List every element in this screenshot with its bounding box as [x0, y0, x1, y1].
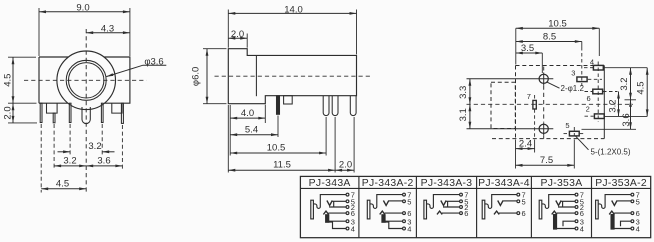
label 5-(1.2X0.5) leader: [576, 136, 589, 150]
reference line 3.6 bottom: [582, 128, 637, 130]
bottom dim extensions pcb: [515, 140, 517, 169]
PJ-343A-3 wire to pin 5: [446, 200, 459, 202]
pcb horizontal centerline dashed: [467, 103, 634, 105]
PJ-353A-2 wire to pin 4: [614, 228, 631, 230]
dimension 3.2 right upper: [630, 68, 632, 100]
table column divider 1: [358, 176, 360, 237]
PJ-343A tip contact (V): [327, 201, 332, 206]
svg-text:4: 4: [636, 225, 640, 234]
svg-text:3.6: 3.6: [621, 113, 632, 126]
table column divider 5: [591, 176, 593, 237]
front pin 6: [121, 103, 123, 123]
dimension 2.0 top: [228, 37, 247, 39]
mounting hole H2 (dia 1.2): [539, 124, 548, 133]
dimension 3.6 lower: [86, 165, 122, 167]
dimension 7.5: [516, 164, 575, 166]
dimension 8.5: [516, 41, 582, 43]
dimension dia 6.0: [206, 49, 208, 104]
dimension 9.0 extension lines: [38, 8, 40, 56]
pad 2 dashes: [585, 115, 594, 117]
side view flat pin (5.4 position): [277, 96, 280, 115]
svg-text:4.0: 4.0: [241, 108, 254, 119]
PJ-353A pin 6 terminal: [575, 212, 578, 215]
PJ-343A-3 pin 7 terminal: [460, 193, 463, 196]
svg-text:2-φ1.2: 2-φ1.2: [561, 84, 585, 93]
label 2-dia1.2 leader: [547, 82, 559, 88]
PJ-343A-4 sleeve contact bar: [482, 200, 485, 219]
pad 4 dashes: [584, 67, 593, 69]
PJ-343A-2 pin 6 terminal: [403, 212, 406, 215]
svg-text:φ3.6: φ3.6: [144, 56, 163, 67]
dimension 2.0 left: [12, 103, 14, 123]
PJ-343A-3 drop wire to pin 2: [443, 201, 460, 207]
svg-text:5.4: 5.4: [245, 125, 258, 136]
svg-text:10.5: 10.5: [267, 143, 286, 154]
svg-text:3.2: 3.2: [63, 155, 76, 166]
svg-text:4.5: 4.5: [3, 74, 14, 87]
dimension 10.5 pcb extensions: [515, 28, 517, 64]
dimension 9.0: [39, 11, 130, 13]
PJ-343A-3 sleeve wire to pin 7: [427, 195, 460, 209]
svg-text:3.5: 3.5: [521, 43, 534, 54]
dimension 10.5 pcb: [516, 27, 600, 29]
PJ-343A-4 pin 6 terminal: [517, 212, 520, 215]
front left mounting notch: [47, 103, 58, 113]
svg-text:2.0: 2.0: [3, 106, 14, 119]
PJ-353A pin 2 terminal: [575, 206, 578, 209]
svg-text:PJ-343A: PJ-343A: [309, 178, 351, 189]
svg-text:3.6: 3.6: [97, 155, 110, 166]
front view horizontal centerline: [24, 79, 147, 81]
front pin 2: [53, 113, 55, 123]
svg-text:4: 4: [351, 225, 355, 234]
pad 7 (center): [533, 100, 536, 109]
PJ-343A-3 pin 2 terminal: [460, 206, 463, 209]
hole H1 cross lines / 3.3 reference: [467, 78, 554, 80]
svg-text:PJ-343A-3: PJ-343A-3: [421, 178, 473, 189]
svg-text:4: 4: [590, 57, 594, 66]
PJ-343A pin 6 terminal: [346, 212, 349, 215]
pad 4 reference line right: [604, 67, 647, 69]
front view vertical centerline: [85, 29, 87, 193]
dimension 4.5 left: [12, 57, 14, 103]
PJ-343A sleeve wire to pin 7: [313, 195, 346, 209]
PJ-353A wire to pin 4: [557, 228, 575, 230]
svg-text:8.5: 8.5: [543, 32, 556, 43]
PJ-343A pin 2 terminal: [346, 206, 349, 209]
front pin 5: [101, 103, 103, 122]
PJ-353A-2 sleeve contact bar: [596, 200, 599, 219]
PJ-343A pin 3 terminal: [346, 220, 349, 223]
front view jack hole (dia 3.6): [69, 63, 104, 98]
dimension 3.2 lower: [54, 165, 86, 167]
dimension 3.5 extension: [541, 53, 543, 73]
dimension 14.0: [228, 12, 356, 14]
svg-text:3: 3: [571, 69, 575, 78]
svg-text:6: 6: [464, 209, 468, 218]
PJ-343A-2 pin 5 terminal: [403, 200, 406, 203]
pcb body right edge: [603, 66, 605, 139]
pad 6: [593, 89, 603, 94]
PJ-353A-2 pin 7 terminal: [631, 193, 634, 196]
svg-text:2.4: 2.4: [519, 139, 532, 150]
PJ-353A-2 wire to pin 6: [614, 212, 631, 214]
PJ-343A-2 sleeve wire to pin 7: [370, 195, 403, 209]
svg-text:2.0: 2.0: [231, 29, 244, 40]
dimension dia 6.0 extensions: [203, 48, 227, 50]
svg-text:PJ-343A-4: PJ-343A-4: [478, 178, 530, 189]
PJ-343A pin 7 terminal: [346, 193, 349, 196]
pad 5: [569, 131, 579, 136]
PJ-353A-2 pin 5 terminal: [631, 200, 634, 203]
PJ-353A-2 wire to pin 5: [617, 200, 631, 202]
PJ-353A wire to pin 5: [561, 200, 575, 202]
PJ-353A pin 5 terminal: [575, 200, 578, 203]
PJ-343A-3 pin 6 terminal: [460, 212, 463, 215]
side pin C round bottom: [350, 96, 356, 116]
PJ-343A-2 wire to pin 5: [389, 200, 403, 202]
svg-text:PJ-353A-2: PJ-353A-2: [595, 178, 647, 189]
svg-text:7: 7: [527, 92, 531, 101]
PJ-343A sleeve contact bar: [311, 200, 314, 219]
PJ-353A-2 sleeve wire to pin 7: [598, 195, 631, 209]
label dia 3.6 leader: [106, 65, 166, 76]
PJ-343A-4 pin 5 terminal: [517, 200, 520, 203]
svg-text:4.5: 4.5: [635, 81, 646, 94]
PJ-353A ring contact (caret): [552, 211, 557, 214]
PJ-353A-2 hook wire to pin 3: [621, 221, 631, 226]
PJ-343A drop wire to pin 2: [329, 201, 346, 207]
pad 3: [577, 77, 587, 82]
PJ-343A-2 wire to pin 6: [385, 212, 403, 214]
front center sleeve pin: [82, 107, 90, 124]
svg-text:5: 5: [522, 197, 526, 206]
PJ-343A-3 ring contact (caret): [437, 211, 442, 214]
dimension 4.0: [230, 117, 265, 119]
svg-text:3.3: 3.3: [458, 86, 469, 99]
dimension 2.0 bottom right: [335, 169, 354, 171]
dimension 10.5 side: [230, 152, 326, 154]
side pin A round bottom: [323, 96, 329, 116]
dimension 2.4: [516, 148, 535, 150]
side view plastic stub: [284, 96, 293, 104]
PJ-353A tip contact (V): [556, 201, 561, 206]
dimension 11.5: [228, 169, 335, 171]
PJ-343A wire to pin 5: [332, 200, 346, 202]
PJ-353A wire to pin 6: [557, 212, 575, 214]
dimension 4.5 bottom: [41, 188, 86, 190]
svg-text:4.5: 4.5: [56, 178, 69, 189]
svg-text:6: 6: [522, 209, 526, 218]
svg-text:7.5: 7.5: [540, 155, 553, 166]
PJ-343A-4 wire to pin 5: [503, 200, 517, 202]
PJ-353A switch lever bar tall: [554, 215, 557, 230]
front view bushing ring: [66, 60, 106, 100]
dimension 2.0 top extension: [246, 34, 248, 48]
PJ-353A-2 pin 4 terminal: [631, 227, 634, 230]
table column divider 2: [415, 176, 417, 237]
PJ-343A wire to pin 6: [328, 212, 346, 214]
pcb inner dashed rectangle (barrel area): [491, 82, 515, 128]
dimension 3.3 / 3.1 vertical: [469, 79, 471, 105]
svg-text:3.1: 3.1: [458, 108, 469, 121]
dimension 5.4: [230, 134, 278, 136]
PJ-353A-2 pin 3 terminal: [631, 220, 634, 223]
dimension 14.0 extensions: [227, 10, 229, 48]
side view outline with barrel and step: [228, 49, 356, 104]
pad 2 reference line: [604, 115, 647, 117]
PJ-343A-2 wire to pin 4: [385, 222, 402, 228]
svg-text:3.2: 3.2: [619, 77, 630, 90]
PJ-353A-2 ring contact (caret): [609, 211, 614, 214]
PJ-343A-2 tip contact (V): [383, 201, 388, 206]
pad 4: [593, 65, 603, 70]
pad 5 dashes: [564, 133, 570, 135]
PJ-343A-2 wire to pin 3: [385, 220, 402, 222]
PJ-343A-2 pin 4 terminal: [403, 227, 406, 230]
PJ-343A-2 switch lever bar: [382, 215, 385, 223]
PJ-343A-3 sleeve contact bar: [424, 200, 427, 219]
PJ-353A-2 pin 6 terminal: [631, 212, 634, 215]
PJ-343A pin 4 terminal: [346, 227, 349, 230]
PJ-343A wire to pin 3: [329, 220, 346, 222]
svg-text:3.2: 3.2: [608, 99, 619, 112]
table outer border: [300, 176, 650, 237]
mounting hole H1 (dia 1.2): [539, 74, 548, 83]
svg-text:14.0: 14.0: [284, 4, 303, 15]
svg-text:5: 5: [565, 121, 569, 130]
table header separator: [300, 187, 650, 189]
pcb body dashed outline: [516, 65, 605, 67]
svg-text:11.5: 11.5: [273, 160, 291, 171]
PJ-343A-2 pin 3 terminal: [403, 220, 406, 223]
PJ-353A sleeve contact bar: [539, 200, 542, 219]
dimension 3.2 upper (between pins): [58, 151, 71, 153]
svg-text:10.5: 10.5: [548, 18, 567, 29]
PJ-343A-4 pin 7 terminal: [517, 193, 520, 196]
dimension 3.5: [516, 52, 543, 54]
svg-text:5: 5: [636, 197, 640, 206]
dimension 3.6 right: [630, 100, 632, 130]
PJ-353A sleeve wire to pin 7: [542, 195, 575, 209]
svg-text:6: 6: [587, 94, 591, 103]
dimension 4.5 left extensions: [8, 56, 36, 58]
dimension 4.3: [86, 32, 130, 34]
svg-text:2: 2: [586, 104, 590, 113]
table column divider 4: [530, 176, 532, 237]
svg-text:4: 4: [580, 225, 584, 234]
front pin extension dashed lines: [40, 124, 42, 193]
front pin 1 (left): [40, 103, 42, 122]
PJ-353A pin 4 terminal: [575, 227, 578, 230]
PJ-353A hook wire to pin 3: [563, 221, 575, 226]
PJ-353A pin 3 terminal: [575, 220, 578, 223]
pad 6 dashes: [585, 91, 593, 93]
PJ-343A-3 pin 5 terminal: [460, 200, 463, 203]
front pin 3: [69, 103, 71, 122]
pad 7 dashes: [534, 95, 536, 100]
tick between 3.2 and 3.6: [625, 99, 637, 101]
PJ-343A-4 sleeve wire to pin 7: [485, 195, 517, 209]
hole H2 cross lines / 3.1 reference: [467, 128, 554, 130]
svg-text:4: 4: [407, 225, 411, 234]
side view collar line: [255, 55, 257, 96]
front view bushing outer circle: [57, 51, 116, 110]
side view horizontal centerline: [215, 75, 371, 77]
dimension 4.5 right: [646, 68, 648, 117]
PJ-343A ring contact (caret): [323, 211, 328, 214]
svg-text:5: 5: [407, 197, 411, 206]
svg-text:4.3: 4.3: [101, 24, 114, 35]
PJ-343A-3 tip contact (V): [441, 201, 446, 206]
PJ-353A-2 switch lever bar tall: [611, 215, 614, 230]
PJ-353A drop wire to pin 2: [558, 201, 575, 207]
PJ-343A switch lever bar: [326, 215, 329, 223]
PJ-343A-2 pin 7 terminal: [403, 193, 406, 196]
front right mounting notch: [112, 103, 122, 113]
pad 3 dashes: [588, 78, 602, 80]
svg-text:PJ-353A: PJ-353A: [540, 178, 582, 189]
svg-text:5-(1.2X0.5): 5-(1.2X0.5): [591, 147, 631, 156]
PJ-343A-4 ring contact (caret): [494, 211, 499, 214]
svg-text:9.0: 9.0: [76, 3, 89, 14]
svg-text:PJ-343A-2: PJ-343A-2: [362, 178, 414, 189]
pad 2: [594, 114, 604, 119]
table column divider 3: [476, 176, 478, 237]
PJ-343A-4 tip contact (V): [498, 201, 503, 206]
pcb hole centerline vertical dashed: [543, 67, 545, 73]
dimension 3.2 inner: [618, 92, 620, 117]
side view lower extension lines: [229, 105, 231, 156]
PJ-343A wire to pin 4: [329, 222, 346, 228]
dimension 8.5 extension: [581, 42, 583, 48]
PJ-353A pin 7 terminal: [575, 193, 578, 196]
PJ-343A-4 wire to pin 6: [499, 212, 517, 214]
PJ-343A-3 wire to pin 6: [442, 212, 460, 214]
PJ-343A-2 sleeve contact bar: [367, 200, 370, 219]
svg-text:2.0: 2.0: [339, 160, 352, 171]
svg-text:3.2: 3.2: [88, 141, 101, 152]
PJ-353A-2 tip contact (V): [612, 201, 617, 206]
PJ-343A-2 ring contact (caret): [380, 211, 385, 214]
svg-text:φ6.0: φ6.0: [191, 67, 202, 86]
side pin B round bottom: [332, 96, 338, 116]
front view housing body: [39, 57, 130, 103]
PJ-343A pin 5 terminal: [346, 200, 349, 203]
